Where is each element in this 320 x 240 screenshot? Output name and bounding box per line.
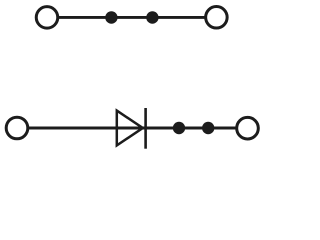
junction dot bottom 2 [202, 122, 214, 134]
terminal circle top-right [206, 7, 228, 29]
terminal circle bottom-right [237, 117, 259, 139]
diode D1 anode triangle [117, 111, 143, 146]
junction dot top 1 [105, 11, 117, 23]
terminal circle top-left [36, 7, 58, 29]
junction dot top 2 [146, 11, 158, 23]
wire bottom net [28, 127, 236, 130]
terminal circle bottom-left [6, 117, 28, 139]
wire top net [58, 16, 206, 19]
diode D1 cathode bar [144, 108, 147, 149]
junction dot bottom 1 [173, 122, 185, 134]
